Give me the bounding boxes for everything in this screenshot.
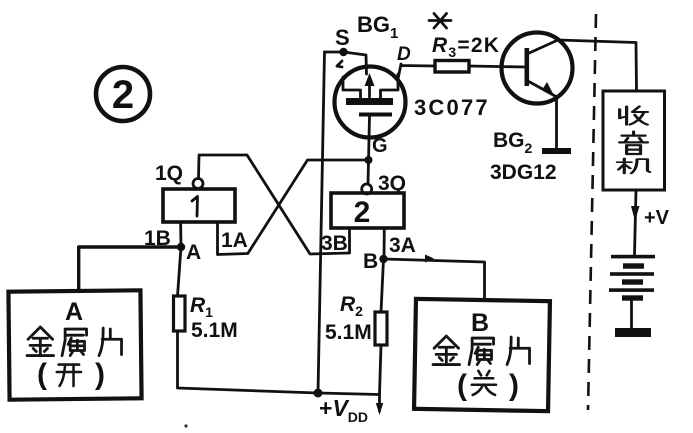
wire radio box to battery with +V arrow <box>631 190 640 255</box>
wire battery to ground <box>630 301 633 328</box>
wire node A to touch plate A <box>79 247 181 291</box>
svg-text:3C077: 3C077 <box>414 95 490 120</box>
svg-text:5.1M: 5.1M <box>191 319 238 342</box>
svg-text:): ) <box>509 369 519 402</box>
node VDD junction dot <box>314 389 323 398</box>
resistor R1 body <box>174 296 186 331</box>
ground bar battery <box>615 328 651 337</box>
label 3B <box>321 232 348 255</box>
transistor BG2 NPN <box>502 33 573 104</box>
svg-text:3DG12: 3DG12 <box>490 161 557 184</box>
label 1Q <box>155 162 183 185</box>
wire 1Q to 3B cross-coupling <box>199 155 350 254</box>
svg-text:2: 2 <box>354 196 371 229</box>
wire node B down to R2 <box>381 259 384 312</box>
svg-text:3Q: 3Q <box>378 172 406 195</box>
node B dot <box>379 255 387 263</box>
battery <box>609 255 655 301</box>
wire R3 to BG2 base <box>469 66 525 67</box>
wire BG2 collector to radio box <box>558 40 637 91</box>
wire 3A input to node B <box>383 228 386 259</box>
label 1A <box>221 229 248 252</box>
wire node B to touch plate B with arrow tick <box>384 255 485 300</box>
svg-text:D: D <box>397 44 411 65</box>
star mark above R3 <box>429 14 451 29</box>
touch plate A box <box>8 290 141 399</box>
svg-text:R2: R2 <box>340 293 363 319</box>
radio box 收音机 <box>603 91 665 190</box>
node G junction dot <box>365 156 373 164</box>
label +V <box>644 207 670 229</box>
label +VDD <box>319 395 368 425</box>
label D <box>397 44 411 65</box>
wire BG1 drain up and right to R3 <box>398 64 435 79</box>
ground bar for BG2 emitter <box>542 148 571 154</box>
gate U1 output bubble <box>193 179 203 189</box>
gate U1 box <box>163 189 235 222</box>
svg-text:3B: 3B <box>321 232 348 255</box>
label BG1 <box>357 12 398 42</box>
svg-text:S: S <box>335 25 350 50</box>
svg-text:2: 2 <box>112 73 134 117</box>
dashed separator line <box>588 14 596 410</box>
node A dot <box>177 243 185 251</box>
touch plate B box <box>414 299 550 411</box>
svg-text:): ) <box>95 358 105 391</box>
resistor R2 body <box>375 312 387 345</box>
svg-text:3A: 3A <box>389 234 416 257</box>
svg-text:G: G <box>372 135 388 157</box>
svg-text:BG2: BG2 <box>493 129 533 156</box>
label 3A <box>389 234 416 257</box>
label 3C077 <box>414 95 490 120</box>
svg-text:1B: 1B <box>144 227 171 250</box>
wire 1B input to node A <box>179 222 182 247</box>
label R3=2K <box>432 34 500 60</box>
svg-text:R1: R1 <box>190 294 213 320</box>
label 3DG12 <box>490 161 557 184</box>
wire BG2 emitter to ground <box>555 97 558 149</box>
svg-text:R3=2K: R3=2K <box>432 34 500 60</box>
label S <box>335 25 350 50</box>
gate U2 box <box>331 193 404 229</box>
svg-text:A: A <box>65 298 83 326</box>
label BG2 <box>493 129 533 156</box>
transistor BG1 MOSFET body <box>335 67 406 138</box>
node S junction dot <box>339 48 347 56</box>
figure label circled 2 <box>96 67 150 121</box>
wire R1 to VDD rail <box>178 331 319 393</box>
svg-text:A: A <box>186 241 201 264</box>
svg-text:(: ( <box>457 369 467 402</box>
label R2 value <box>325 293 372 344</box>
label 3Q <box>378 172 406 195</box>
svg-text:1Q: 1Q <box>155 162 183 185</box>
wire R2 to VDD rail <box>380 345 382 395</box>
svg-text:5.1M: 5.1M <box>325 321 372 344</box>
label A node <box>186 241 201 264</box>
svg-text:B: B <box>471 309 489 337</box>
svg-text:+VDD: +VDD <box>319 395 368 425</box>
svg-text:1A: 1A <box>221 229 248 252</box>
wire VDD rail to R2 bottom with arrow <box>318 393 383 415</box>
svg-text:B: B <box>363 250 378 273</box>
label R1 value <box>190 294 238 342</box>
speck <box>184 424 187 427</box>
gate U2 output bubble <box>362 184 372 194</box>
svg-text:BG1: BG1 <box>357 12 398 42</box>
wire S rail vertical (S down to VDD rail) <box>318 52 325 393</box>
label B node <box>363 250 378 273</box>
svg-text:+V: +V <box>644 207 670 229</box>
wire BG1 gate down to gate2 output <box>368 117 370 185</box>
label G <box>372 135 388 157</box>
wire S to BG1 top <box>325 52 367 74</box>
label 1B <box>144 227 171 250</box>
wire 3Q/G junction to 1A cross-coupling <box>218 160 370 255</box>
wire node A down to R1 <box>178 247 182 296</box>
arrow tick on S wire <box>337 61 342 67</box>
resistor R3 body <box>435 61 469 73</box>
svg-text:(: ( <box>37 358 47 391</box>
